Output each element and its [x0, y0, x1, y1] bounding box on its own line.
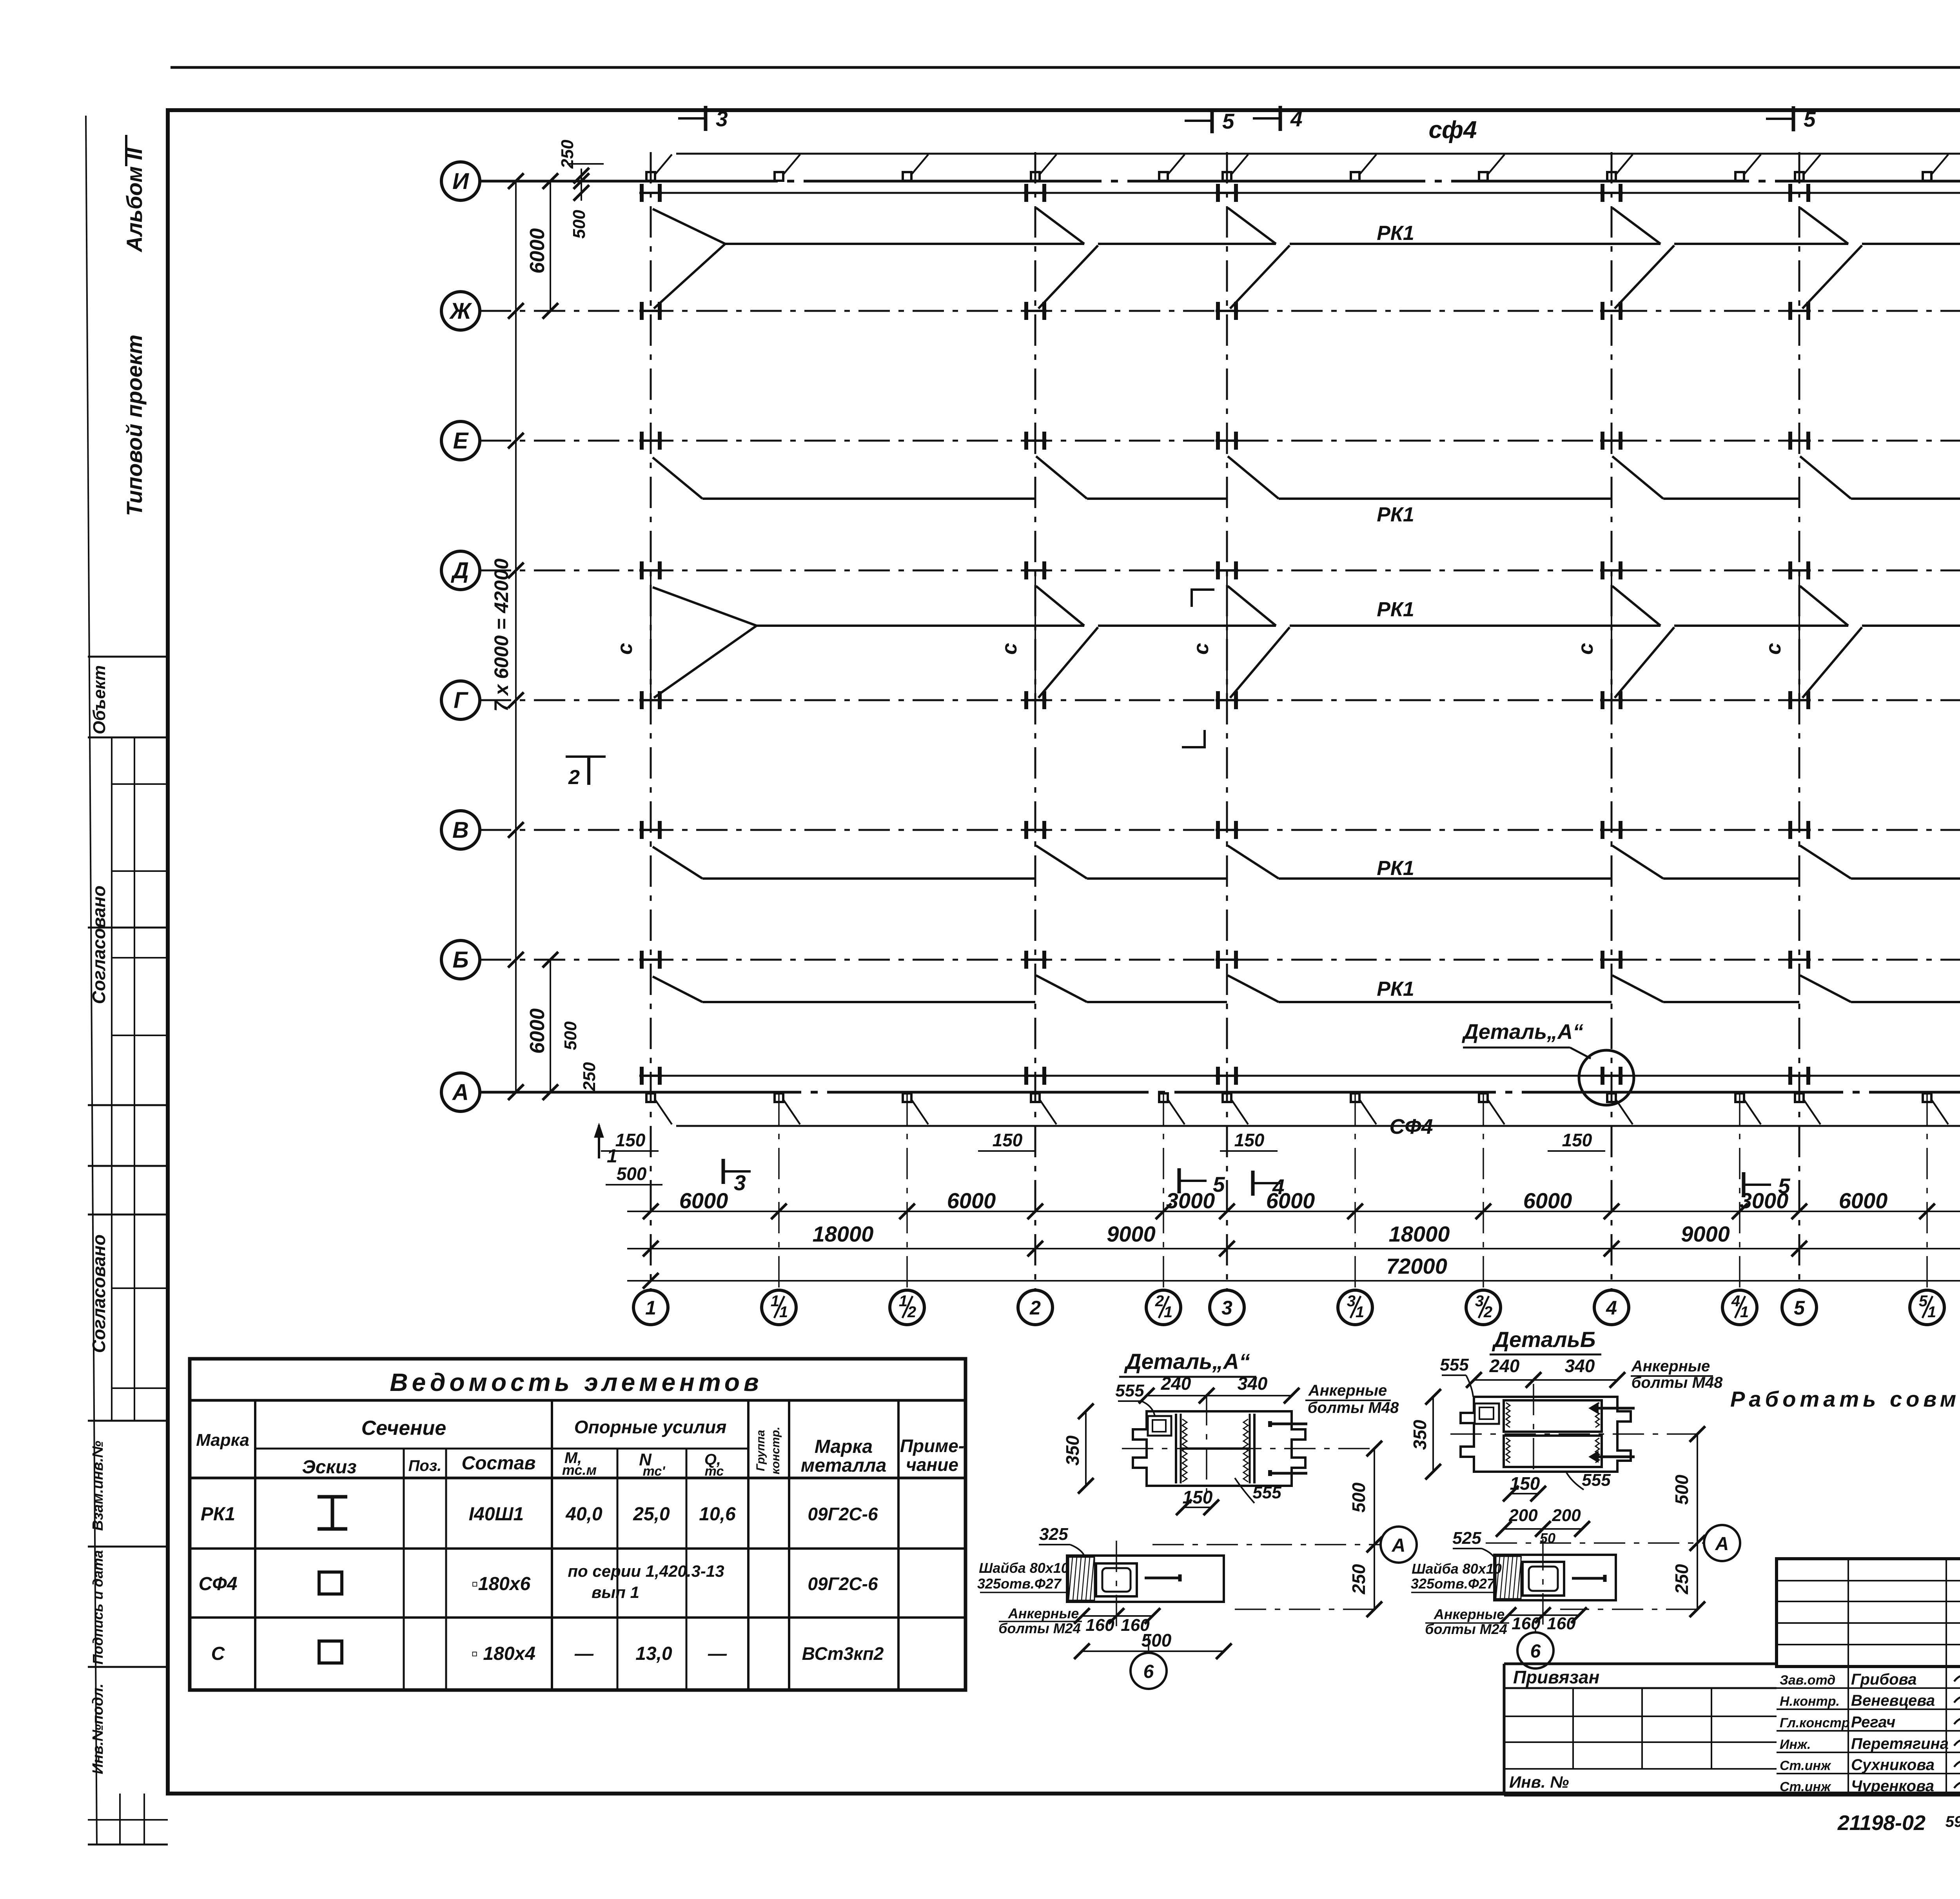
- svg-text:Зав.отд: Зав.отд: [1780, 1673, 1835, 1688]
- svg-text:Опорные усилия: Опорные усилия: [574, 1417, 727, 1437]
- Деталь Б plan top dims 200 200: [1504, 1528, 1582, 1530]
- svg-text:555: 555: [1440, 1355, 1469, 1374]
- svg-text:13,0: 13,0: [635, 1643, 672, 1664]
- svg-text:555: 555: [1582, 1471, 1611, 1490]
- svg-text:250: 250: [1671, 1564, 1692, 1594]
- svg-text:РК1: РК1: [1377, 222, 1414, 245]
- row axis circles and labels: [441, 162, 480, 200]
- svg-text:525: 525: [1452, 1529, 1481, 1548]
- svg-text:Инв.№подл.: Инв.№подл.: [90, 1683, 106, 1774]
- svg-text:3: 3: [1347, 1293, 1356, 1310]
- sheet outer trim line left: [86, 116, 97, 1845]
- СФ4 top tie line: [676, 153, 1960, 155]
- svg-text:09Г2С-6: 09Г2С-6: [808, 1574, 878, 1594]
- svg-text:150: 150: [615, 1130, 646, 1150]
- svg-text:Группа: Группа: [754, 1430, 767, 1471]
- svg-text:Б: Б: [452, 947, 468, 973]
- svg-text:тс.м: тс.м: [562, 1462, 597, 1478]
- svg-text:5: 5: [1222, 109, 1235, 133]
- svg-text:3: 3: [734, 1171, 746, 1195]
- row axis А line: [480, 1091, 1960, 1094]
- svg-text:7 х 6000 = 42000: 7 х 6000 = 42000: [490, 558, 512, 712]
- sheet top trim line: [171, 66, 1960, 69]
- section flag 5 bottom: [1179, 1180, 1207, 1182]
- row axis Д line: [480, 570, 1960, 572]
- svg-text:9000: 9000: [1107, 1222, 1156, 1246]
- svg-text:с: с: [1762, 643, 1785, 655]
- left dim line 7x6000=42000: [515, 181, 517, 1092]
- Деталь А plan vertical axis: [1116, 1541, 1117, 1635]
- svg-text:—: —: [574, 1643, 594, 1664]
- Деталь А base plate section: [1133, 1411, 1305, 1486]
- svg-text:А: А: [452, 1080, 469, 1105]
- section flag 5 top: [1185, 120, 1212, 122]
- svg-text:Перетягина: Перетягина: [1851, 1735, 1949, 1752]
- svg-text:10,6: 10,6: [699, 1504, 736, 1525]
- svg-text:Регач: Регач: [1851, 1714, 1895, 1731]
- Деталь Б bottom dims 150 555: [1511, 1493, 1538, 1494]
- РК1 line strip Б-А: [653, 977, 702, 1002]
- svg-text:Сечение: Сечение: [361, 1417, 446, 1440]
- svg-text:Инж.: Инж.: [1780, 1737, 1811, 1752]
- svg-text:1: 1: [899, 1293, 907, 1310]
- svg-text:РК1: РК1: [1377, 598, 1414, 621]
- Деталь А top dim 240/340: [1147, 1395, 1292, 1396]
- svg-text:Шайба 80х10: Шайба 80х10: [1412, 1561, 1502, 1577]
- Деталь А bottom dims 150 555: [1184, 1507, 1211, 1508]
- Деталь А column I-section: [1175, 1414, 1177, 1483]
- svg-text:500: 500: [1348, 1482, 1369, 1512]
- svg-text:200: 200: [1552, 1506, 1581, 1525]
- dimension row 3 (72000): [627, 1280, 1960, 1282]
- svg-text:Работать совместно с листом 2: Работать совместно с листом 22: [1730, 1387, 1960, 1411]
- СФ4 bottom posts and diagonals: [646, 1093, 672, 1124]
- svg-text:Объект: Объект: [90, 665, 109, 734]
- svg-text:Согласовано: Согласовано: [89, 886, 109, 1004]
- svg-text:Гл.констр: Гл.констр: [1780, 1716, 1850, 1730]
- svg-text:3000: 3000: [1166, 1188, 1215, 1213]
- svg-text:Типовой проект: Типовой проект: [122, 334, 147, 516]
- svg-text:3000: 3000: [1740, 1188, 1789, 1213]
- svg-text:325отв.Ф27: 325отв.Ф27: [1411, 1576, 1495, 1592]
- svg-text:350: 350: [1410, 1420, 1430, 1450]
- svg-text:Привязан: Привязан: [1513, 1667, 1599, 1687]
- svg-text:Анкерные: Анкерные: [1631, 1358, 1710, 1375]
- svg-text:И: И: [452, 169, 469, 194]
- svg-text:с: с: [613, 643, 637, 655]
- svg-text:І40Ш1: І40Ш1: [469, 1504, 524, 1525]
- svg-text:18000: 18000: [1389, 1222, 1450, 1246]
- svg-text:Анкерные: Анкерные: [1308, 1382, 1387, 1399]
- svg-text:болты М24: болты М24: [998, 1620, 1080, 1636]
- svg-text:РК1: РК1: [1377, 978, 1414, 1000]
- svg-text:3: 3: [1221, 1297, 1232, 1319]
- svg-text:▫ 180х4: ▫ 180х4: [471, 1643, 535, 1664]
- svg-text:1: 1: [645, 1297, 656, 1319]
- left dim 6000 И-Ж: [550, 181, 551, 311]
- svg-text:6: 6: [1143, 1661, 1154, 1682]
- svg-text:Деталь„А“: Деталь„А“: [1124, 1349, 1250, 1374]
- svg-text:150: 150: [993, 1130, 1023, 1150]
- svg-text:6000: 6000: [526, 1008, 549, 1054]
- svg-text:6: 6: [1530, 1641, 1541, 1662]
- svg-text:ВСт3кп2: ВСт3кп2: [802, 1643, 884, 1664]
- svg-text:вып 1: вып 1: [592, 1583, 639, 1601]
- svg-text:Согласовано: Согласовано: [89, 1235, 109, 1353]
- svg-text:СФ4: СФ4: [1389, 1115, 1433, 1138]
- РК1 line strip В-Б: [653, 847, 702, 879]
- svg-text:Е: Е: [453, 428, 469, 454]
- svg-text:340: 340: [1238, 1373, 1268, 1394]
- svg-text:тс: тс: [705, 1464, 724, 1479]
- Деталь Б base plate section: [1461, 1397, 1631, 1472]
- Деталь Б axis to circle А: [1486, 1542, 1704, 1544]
- svg-text:Чуренкова: Чуренкова: [1851, 1777, 1934, 1795]
- svg-text:Состав: Состав: [461, 1453, 535, 1474]
- svg-text:6000: 6000: [1523, 1188, 1572, 1213]
- svg-text:с: с: [1574, 643, 1597, 655]
- svg-text:Анкерные: Анкерные: [1008, 1605, 1079, 1621]
- svg-text:2: 2: [1029, 1297, 1041, 1319]
- svg-text:Марка: Марка: [196, 1431, 249, 1450]
- СФ4 bottom tie line: [676, 1125, 1960, 1127]
- title block revision grid: [1777, 1559, 1960, 1667]
- svg-text:325отв.Ф27: 325отв.Ф27: [977, 1576, 1062, 1592]
- Деталь А right dim line 500/250: [1374, 1449, 1375, 1609]
- svg-text:РК1: РК1: [1377, 857, 1414, 880]
- svg-text:5: 5: [1794, 1297, 1805, 1319]
- svg-text:200: 200: [1508, 1506, 1538, 1525]
- row axis Г line: [480, 699, 1960, 701]
- svg-text:Шайба 80х10: Шайба 80х10: [979, 1560, 1069, 1576]
- dimension row 2 (18000/9000): [627, 1248, 1960, 1249]
- svg-text:2: 2: [568, 766, 580, 789]
- svg-text:Ж: Ж: [449, 298, 472, 324]
- Деталь А plan circle 6: [1131, 1653, 1167, 1689]
- bottom axis circles and labels: [633, 1290, 668, 1325]
- svg-text:6000: 6000: [947, 1188, 996, 1213]
- Деталь Б anchor plan: [1494, 1555, 1616, 1600]
- svg-text:с: с: [998, 643, 1021, 655]
- svg-text:6000: 6000: [1266, 1188, 1315, 1213]
- Деталь А left dim 350: [1085, 1411, 1087, 1486]
- svg-text:Н.контр.: Н.контр.: [1780, 1694, 1840, 1709]
- svg-text:Эскиз: Эскиз: [302, 1457, 356, 1478]
- svg-text:4: 4: [1731, 1293, 1740, 1310]
- title block left extension Привязан: [1504, 1663, 1777, 1665]
- fachwerk post stems to bottom circles: [778, 1094, 780, 1290]
- Деталь А plan dims 160 160 500: [1082, 1615, 1152, 1617]
- stamp strip ladder: [112, 783, 168, 785]
- detail A callout circle on plan: [1579, 1050, 1634, 1105]
- РК1 line strip Е-Д: [653, 458, 702, 499]
- Деталь А centre axes: [1206, 1394, 1207, 1504]
- svg-text:3: 3: [716, 107, 728, 131]
- svg-text:4: 4: [1606, 1297, 1617, 1319]
- svg-text:тс': тс': [643, 1464, 666, 1479]
- svg-text:5: 5: [1804, 107, 1816, 131]
- svg-text:4: 4: [1290, 107, 1303, 131]
- svg-text:РК1: РК1: [1377, 503, 1414, 526]
- columns on row А: [639, 1067, 662, 1085]
- row axis Б line: [480, 959, 1960, 961]
- svg-text:СФ4: СФ4: [199, 1574, 238, 1594]
- svg-text:09Г2С-6: 09Г2С-6: [808, 1504, 878, 1524]
- svg-text:Г: Г: [454, 688, 468, 713]
- svg-text:по серии 1,420.3-13: по серии 1,420.3-13: [568, 1562, 724, 1580]
- svg-text:340: 340: [1565, 1356, 1595, 1376]
- row axis В line: [480, 829, 1960, 831]
- svg-text:с: с: [1189, 643, 1213, 655]
- Деталь Б column box sections: [1504, 1400, 1602, 1432]
- svg-text:160: 160: [1512, 1614, 1541, 1633]
- svg-text:Ст.инж: Ст.инж: [1780, 1779, 1831, 1794]
- svg-text:Поз.: Поз.: [408, 1457, 442, 1474]
- column row line along И: [649, 192, 1960, 194]
- section flag 4 bottom: [1253, 1182, 1280, 1184]
- svg-text:160: 160: [1085, 1616, 1114, 1635]
- svg-text:сф4: сф4: [1428, 116, 1477, 143]
- stamp strip boxes: [88, 656, 168, 658]
- left dim 6000 Б-А: [550, 960, 551, 1092]
- svg-text:Анкерные: Анкерные: [1434, 1606, 1505, 1622]
- РК1 line strip Д-Г: [653, 587, 757, 626]
- Деталь А anchor bolts right: [1270, 1423, 1307, 1425]
- Деталь Б plan dims 160 160: [1508, 1614, 1579, 1616]
- corner stamp below frame: [88, 1844, 168, 1846]
- Деталь Б anchor bolts right: [1598, 1407, 1635, 1410]
- svg-text:РК1: РК1: [201, 1504, 235, 1525]
- svg-text:Взам.инв.№: Взам.инв.№: [90, 1441, 106, 1531]
- svg-text:250: 250: [580, 1062, 599, 1091]
- svg-text:72000: 72000: [1386, 1254, 1447, 1278]
- svg-text:240: 240: [1161, 1373, 1191, 1394]
- svg-text:9000: 9000: [1681, 1222, 1730, 1246]
- columns on row И: [639, 184, 662, 202]
- Деталь А axis to circle А: [1152, 1544, 1381, 1545]
- svg-text:болты М48: болты М48: [1308, 1399, 1399, 1416]
- С brace verticals in strip Д-Г: [650, 576, 652, 697]
- row axis Ж line: [480, 310, 1960, 312]
- svg-text:Приме-: Приме-: [900, 1436, 964, 1456]
- svg-text:240: 240: [1489, 1356, 1520, 1376]
- svg-text:6000: 6000: [526, 228, 549, 274]
- svg-text:150: 150: [1562, 1130, 1592, 1150]
- row axis Е line: [480, 440, 1960, 442]
- svg-text:▫180х6: ▫180х6: [472, 1574, 531, 1594]
- svg-text:59: 59: [1945, 1813, 1960, 1830]
- Деталь Б anchor plate left: [1475, 1403, 1499, 1424]
- column axis vertical lines 1..6: [650, 152, 652, 1290]
- Деталь Б centre axes: [1533, 1384, 1534, 1490]
- section flag 3 top: [678, 117, 706, 120]
- svg-text:500: 500: [1671, 1474, 1692, 1505]
- svg-text:чание: чание: [906, 1454, 958, 1475]
- svg-text:Сухникова: Сухникова: [1851, 1756, 1935, 1774]
- columns on rows Ж..Б: [639, 302, 662, 320]
- svg-text:150: 150: [1510, 1473, 1540, 1494]
- Деталь Б top dim 240/340: [1474, 1379, 1617, 1381]
- section flag 3 bottom: [723, 1170, 751, 1173]
- svg-text:Подпись и дата: Подпись и дата: [90, 1550, 106, 1665]
- Деталь Б left dim 350: [1432, 1397, 1434, 1472]
- row axis И line: [480, 180, 1960, 183]
- dimension row 1 (6000/3000): [627, 1211, 1960, 1212]
- svg-text:А: А: [1715, 1534, 1729, 1554]
- svg-text:40,0: 40,0: [565, 1504, 603, 1525]
- svg-text:500: 500: [1142, 1630, 1172, 1650]
- svg-text:—: —: [708, 1643, 727, 1664]
- СФ4 top posts and diagonals: [646, 154, 672, 181]
- РК1 line strip И-Ж: [653, 209, 725, 244]
- svg-text:6000: 6000: [1839, 1188, 1888, 1213]
- svg-text:150: 150: [1183, 1487, 1213, 1507]
- Деталь Б plan circle 6: [1517, 1632, 1553, 1668]
- ведомость table grid: [190, 1477, 965, 1480]
- section flag 5 bottom right: [1744, 1184, 1771, 1186]
- svg-text:21198-02: 21198-02: [1837, 1811, 1926, 1835]
- svg-text:2: 2: [1155, 1293, 1164, 1310]
- svg-text:Веневцева: Веневцева: [1851, 1692, 1935, 1709]
- svg-text:1: 1: [771, 1293, 779, 1310]
- svg-text:6000: 6000: [679, 1188, 728, 1213]
- svg-text:Ст.инж: Ст.инж: [1780, 1758, 1831, 1773]
- section corner mark lower near axis 3: [1182, 730, 1205, 747]
- svg-text:Ведомость элементов: Ведомость элементов: [390, 1368, 762, 1396]
- svg-text:160: 160: [1547, 1614, 1576, 1633]
- svg-text:325: 325: [1039, 1525, 1068, 1544]
- svg-text:А: А: [1392, 1535, 1406, 1556]
- svg-text:Грибова: Грибова: [1851, 1671, 1917, 1688]
- svg-text:Деталь„А“: Деталь„А“: [1462, 1020, 1583, 1044]
- svg-text:50: 50: [1540, 1530, 1555, 1546]
- svg-text:констр.: констр.: [769, 1427, 782, 1474]
- svg-text:150: 150: [1234, 1130, 1265, 1150]
- left small dims 250/500 top: [581, 169, 582, 201]
- section mark 2 left: [566, 755, 606, 758]
- svg-text:500: 500: [561, 1021, 580, 1050]
- svg-text:С: С: [211, 1643, 225, 1664]
- title block signature rows: [1777, 1687, 1960, 1689]
- section corner mark upper near axis 3: [1192, 590, 1214, 607]
- svg-text:25,0: 25,0: [633, 1504, 670, 1525]
- svg-text:18000: 18000: [813, 1222, 874, 1246]
- svg-text:555: 555: [1115, 1381, 1144, 1400]
- Деталь Б plan vertical axis: [1542, 1539, 1544, 1628]
- svg-text:В: В: [452, 817, 469, 843]
- svg-text:500: 500: [617, 1164, 647, 1184]
- column row line along А: [649, 1075, 1960, 1077]
- svg-text:ДетальБ: ДетальБ: [1492, 1327, 1596, 1352]
- svg-text:250: 250: [1348, 1564, 1369, 1594]
- Деталь А anchor plan: [1067, 1556, 1224, 1602]
- section flag 5 top right: [1766, 118, 1793, 120]
- svg-text:Д: Д: [450, 558, 469, 583]
- svg-text:Инв. №: Инв. №: [1509, 1773, 1569, 1791]
- svg-text:500: 500: [570, 210, 589, 239]
- Деталь А anchor bolt left plate: [1148, 1416, 1171, 1436]
- section flag 4 top: [1253, 117, 1280, 120]
- section arrow 1 bottom left: [598, 1125, 600, 1158]
- Деталь Б right dim line 500/250: [1697, 1434, 1698, 1609]
- svg-text:металла: металла: [801, 1455, 887, 1476]
- svg-text:350: 350: [1062, 1435, 1083, 1465]
- svg-text:Марка: Марка: [815, 1436, 873, 1457]
- svg-text:3: 3: [1475, 1293, 1484, 1310]
- ведомость table frame: [190, 1359, 965, 1690]
- svg-text:555: 555: [1252, 1483, 1281, 1502]
